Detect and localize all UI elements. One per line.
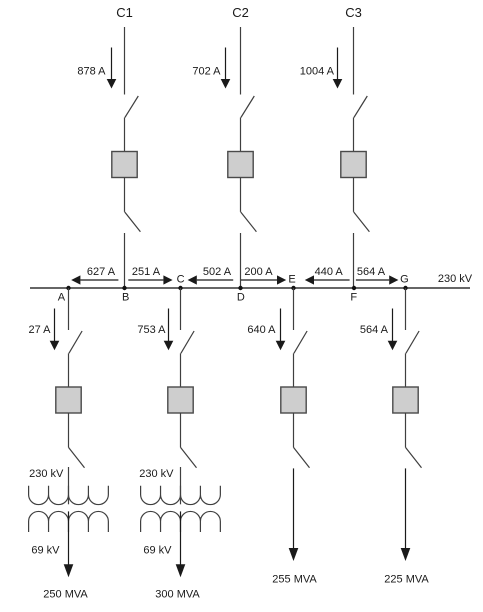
svg-text:440 A: 440 A [315,266,344,278]
current arrow 702 A (C2) [221,48,231,89]
svg-text:627 A: 627 A [87,266,116,278]
flow arrow 251 A (toward C) [128,275,172,284]
disconnect switch C3 lower (blade) [354,212,370,232]
svg-text:225 MVA: 225 MVA [384,574,429,586]
svg-text:C3: C3 [345,5,362,20]
transformer TC secondary winding (69 kV) [141,511,221,532]
load arrow 300 MVA (feeder C) [176,511,186,577]
disconnect switch feeder E upper (blade) [294,331,307,353]
disconnect switch C2 upper (blade) [241,96,254,118]
flow arrow 440 A (toward E) [305,275,350,284]
wire C1 incoming upper [124,27,126,95]
wire C2 to breaker [240,118,242,152]
svg-text:F: F [350,292,357,304]
wire feeder C from bus [180,288,182,330]
disconnect switch feeder A upper (blade) [69,331,82,353]
breaker C3 [341,152,366,178]
disconnect switch feeder C lower (blade) [181,447,197,467]
svg-text:564 A: 564 A [357,266,386,278]
load arrow 250 MVA (feeder A) [64,511,74,577]
breaker C2 [228,152,253,178]
svg-text:251 A: 251 A [132,266,161,278]
svg-text:B: B [122,292,129,304]
wire feeder C to breaker [180,353,182,387]
svg-text:250 MVA: 250 MVA [43,589,88,601]
wire C3 incoming upper [353,27,355,95]
svg-text:C: C [177,274,185,286]
transformer TC primary winding (230 kV) [141,486,221,505]
load arrow 225 MVA (feeder G) [401,468,411,561]
svg-text:G: G [400,274,409,286]
node D junction dot [238,286,242,290]
wire C3 to bus [353,233,355,289]
svg-text:A: A [58,291,66,303]
wire feeder A below breaker [68,413,70,447]
node G junction dot [403,286,407,290]
node E junction dot [291,286,295,290]
wire C1 to bus [124,233,126,289]
svg-text:27 A: 27 A [28,324,51,336]
wire C3 below breaker [353,178,355,212]
disconnect switch feeder C upper (blade) [181,331,194,353]
flow arrow 627 A (toward A) [71,275,118,284]
flow arrow 200 A (toward E) [241,275,286,284]
disconnect switch feeder A lower (blade) [69,447,85,467]
wire feeder A from bus [68,288,70,330]
breaker C1 [112,152,137,178]
current arrow 640 A (feeder E) [276,309,286,351]
wire feeder E to breaker [293,353,295,387]
wire feeder G to breaker [405,353,407,387]
bus 230 kV [30,287,470,289]
disconnect switch C3 upper (blade) [354,96,367,118]
svg-text:69 kV: 69 kV [143,545,172,557]
disconnect switch feeder E lower (blade) [294,447,310,467]
wire C2 incoming upper [240,27,242,95]
disconnect switch C2 lower (blade) [241,212,257,232]
flow arrow 564 A (toward G) [356,275,399,284]
wire C2 to bus [240,233,242,289]
svg-text:640 A: 640 A [247,324,276,336]
svg-text:753 A: 753 A [137,324,166,336]
current arrow 1004 A (C3) [333,48,343,89]
wire feeder C below breaker [180,413,182,447]
wire feeder G from bus [405,288,407,330]
disconnect switch C1 upper (blade) [125,96,138,118]
svg-text:502 A: 502 A [203,266,232,278]
transformer TA secondary winding (69 kV) [29,511,109,532]
svg-text:1004 A: 1004 A [300,66,335,78]
node C junction dot [178,286,182,290]
svg-text:C2: C2 [232,5,249,20]
svg-text:C1: C1 [116,5,133,20]
svg-text:D: D [237,292,245,304]
breaker feeder C [168,387,193,413]
wire feeder G below breaker [405,413,407,447]
wire C1 to breaker [124,118,126,152]
wire feeder A to breaker [68,353,70,387]
breaker feeder A [56,387,81,413]
wire C1 below breaker [124,178,126,212]
svg-text:230 kV: 230 kV [29,468,64,480]
svg-text:300 MVA: 300 MVA [155,589,200,601]
svg-text:200 A: 200 A [244,266,273,278]
node A junction dot [66,286,70,290]
svg-text:702 A: 702 A [192,66,221,78]
svg-text:564 A: 564 A [360,324,389,336]
svg-text:230 kV: 230 kV [139,468,174,480]
current arrow 878 A (C1) [107,48,117,89]
wire feeder E from bus [293,288,295,330]
svg-text:E: E [288,274,295,286]
svg-text:878 A: 878 A [77,66,106,78]
breaker feeder E [281,387,306,413]
disconnect switch feeder G upper (blade) [406,331,419,353]
wire feeder E below breaker [293,413,295,447]
flow arrow 502 A (toward C) [188,275,234,284]
svg-text:69 kV: 69 kV [31,545,60,557]
load arrow 255 MVA (feeder E) [289,468,299,561]
breaker feeder G [393,387,418,413]
disconnect switch feeder G lower (blade) [406,447,422,467]
node B junction dot [122,286,126,290]
transformer TA primary winding (230 kV) [29,486,109,505]
current arrow 27 A (feeder A) [50,309,60,351]
svg-text:255 MVA: 255 MVA [272,574,317,586]
wire C2 below breaker [240,178,242,212]
wire feeder C into transformer [180,467,182,504]
disconnect switch C1 lower (blade) [125,212,141,232]
current arrow 753 A (feeder C) [164,309,174,351]
node F junction dot [352,286,356,290]
svg-text:230 kV: 230 kV [438,273,473,285]
wire C3 to breaker [353,118,355,152]
wire feeder A into transformer [68,467,70,504]
current arrow 564 A (feeder G) [388,309,398,351]
